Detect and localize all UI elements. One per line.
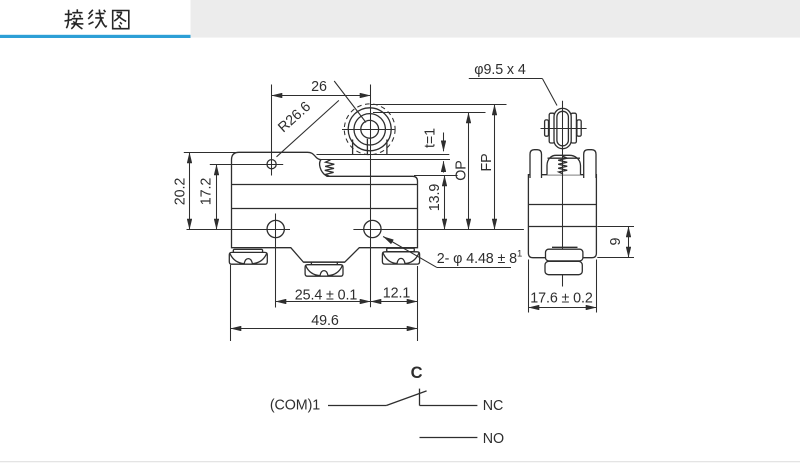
R26.6 leader line (277, 100, 339, 156)
dim t=1 upper arrow (443, 133, 445, 152)
17.6 left extension line (528, 260, 530, 313)
OP top reference line (373, 112, 486, 114)
side lever post right (584, 150, 596, 178)
lever pivot hole (267, 160, 276, 169)
side roller flange left (549, 113, 554, 143)
roller swept dashed circle (344, 104, 395, 155)
NC wire (420, 405, 478, 407)
svg-text:13.9: 13.9 (427, 184, 443, 212)
svg-text:NC: NC (483, 398, 503, 414)
terminal centerline left segment (187, 229, 291, 231)
right screw head (382, 252, 419, 264)
svg-text:49.6: 49.6 (311, 313, 339, 329)
SIDE VIEW (528, 101, 596, 287)
side roller flange right (571, 113, 577, 143)
17.6 right extension line (596, 260, 598, 313)
13.9 top reference line (OP line) (414, 175, 458, 177)
pole contact C (419, 389, 421, 406)
lever top extension line (20.2 reference) (184, 152, 240, 154)
NO wire (420, 437, 478, 439)
svg-text:26: 26 (311, 79, 327, 95)
49.6 left extension line (230, 265, 232, 341)
lever strip bottom edge (t=1 extension) (319, 159, 450, 161)
dim FP line (494, 105, 496, 230)
svg-text:12.1: 12.1 (383, 286, 411, 302)
svg-text:25.4 ± 0.1: 25.4 ± 0.1 (295, 288, 358, 304)
dim 20.2 line (189, 153, 191, 230)
roller outer circle (348, 108, 391, 151)
dim 25.4 line (276, 301, 371, 303)
roller hub circle (361, 120, 379, 138)
body parting line lower (232, 208, 418, 210)
svg-text:φ9.5 x 4: φ9.5 x 4 (474, 62, 526, 78)
side screw washer line (552, 246, 578, 248)
left screw slot dish (230, 253, 267, 263)
side lever post left (530, 150, 542, 178)
phi9.5x4 leader underline (469, 78, 543, 80)
svg-text:2- φ 4.48 ± 81: 2- φ 4.48 ± 81 (437, 248, 522, 267)
side nut lower (545, 261, 582, 274)
FP top reference line (371, 104, 507, 106)
header blue underline (0, 35, 191, 38)
lever strip top edge (t=1 extension) (317, 154, 450, 156)
dim OP line (468, 113, 470, 230)
FRONT VIEW (184, 85, 524, 308)
roller horizontal centerline (342, 129, 395, 131)
svg-text:17.2: 17.2 (198, 178, 214, 206)
right screw washer bar (387, 248, 415, 251)
side roller inner capsule (557, 111, 569, 146)
side body parting line lower (9 dim reference) (528, 226, 596, 228)
svg-text:OP: OP (453, 160, 469, 180)
dim 12.1 line (371, 301, 418, 303)
pivot vertical extension line (26 dim) (271, 85, 273, 176)
dim 49.6 line (231, 328, 418, 330)
left terminal hole (267, 220, 284, 237)
2-phi4.48 leader arrow (383, 237, 437, 268)
side spring (558, 156, 567, 174)
middle screw platform line (303, 261, 345, 263)
dim 17.6 line (529, 307, 597, 309)
middle screw shank ticks (311, 262, 337, 265)
9 bottom extension line (597, 257, 634, 259)
side roller horizontal centerline (541, 128, 587, 130)
svg-text:C: C (411, 364, 423, 382)
side plunger housing (547, 155, 581, 175)
side roller outer bar left (545, 120, 549, 136)
header title 接线图 (drawn strokes) (65, 9, 129, 29)
switch body outline (232, 152, 418, 262)
roller fork right arm (386, 140, 388, 155)
dim 13.9 line (444, 176, 446, 230)
COM wire (328, 405, 386, 407)
side roller capsule (554, 108, 571, 148)
svg-text:t=1: t=1 (422, 128, 438, 148)
DIMENSIONS (172, 62, 634, 341)
right terminal hole (364, 220, 381, 237)
9 top extension line (597, 226, 634, 228)
roller vertical extension line (26 / 12.1 dims) (370, 85, 372, 308)
switch arm (386, 391, 426, 406)
side body parting line upper (528, 204, 596, 206)
svg-text:FP: FP (479, 153, 495, 171)
middle screw head (305, 265, 343, 277)
svg-text:20.2: 20.2 (172, 178, 188, 206)
roller fork left arm (352, 140, 354, 155)
svg-text:9: 9 (608, 237, 624, 245)
bottom separator line (0, 461, 800, 462)
side roller outer bar right (577, 120, 581, 136)
side plunger housing inner line (548, 157, 581, 159)
dim 17.2 line (216, 165, 218, 230)
svg-text:17.6 ± 0.2: 17.6 ± 0.2 (530, 290, 593, 306)
body parting line upper (232, 184, 418, 186)
plunger spring (325, 160, 335, 176)
phi9.5x4 leader diagonal (543, 79, 558, 106)
roller middle circle (354, 114, 385, 145)
side vertical centerline (562, 101, 564, 287)
side nut upper (546, 249, 583, 261)
dim 26 line (272, 95, 371, 97)
pivot horizontal centerline (17.2 reference) (210, 164, 283, 166)
left screw head (229, 252, 267, 264)
dim t=1 lower arrow (443, 161, 445, 172)
roller pin stem (366, 139, 368, 155)
SCHEMATIC (270, 364, 504, 447)
svg-text:NO: NO (483, 431, 504, 447)
roller tangent leader line (334, 81, 366, 123)
right screw slot dish (383, 253, 419, 264)
49.6 right extension line (417, 266, 419, 341)
terminal centerline right segment (353, 229, 524, 231)
header gray band (191, 0, 800, 38)
middle screw slot dish (306, 266, 343, 276)
left screw washer bar (233, 249, 262, 252)
svg-text:(COM)1: (COM)1 (270, 398, 320, 414)
left terminal vertical centerline / 25.4 extension (275, 214, 277, 308)
dim 9 line (628, 227, 630, 258)
2-phi4.48 leader underline (437, 267, 511, 269)
side body outline (528, 175, 596, 258)
